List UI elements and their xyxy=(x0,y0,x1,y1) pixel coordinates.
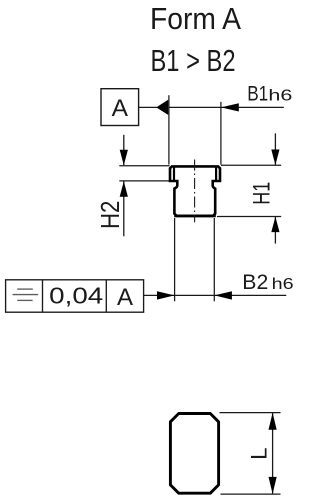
B1 left extension line xyxy=(168,95,170,164)
B2 right extension line xyxy=(213,218,215,301)
H2 arrow upper xyxy=(120,150,128,166)
centerline front view xyxy=(194,160,196,223)
H1 upper extension line xyxy=(221,164,281,166)
B2 arrow right xyxy=(214,291,232,299)
L dimension line xyxy=(272,413,274,495)
H2 dimension line lower xyxy=(123,181,125,236)
part outline front view xyxy=(170,166,220,216)
L arrow bottom xyxy=(269,477,277,494)
B1 arrow xyxy=(221,103,239,111)
svg-text:B1 > B2: B1 > B2 xyxy=(151,44,236,78)
part bottom line xyxy=(174,215,216,218)
svg-text:h6: h6 xyxy=(272,276,294,293)
tolerance frame divider 2 xyxy=(105,280,107,312)
datum box A xyxy=(101,89,139,126)
flange chamfer line right xyxy=(215,167,217,180)
H1 dimension line upper xyxy=(274,133,276,164)
B2 left extension line xyxy=(174,218,176,301)
H2 arrow lower xyxy=(120,181,128,197)
svg-text:Form A: Form A xyxy=(150,1,241,36)
flange chamfer line left xyxy=(173,167,175,180)
B1 dimension line xyxy=(169,106,284,108)
H1 arrow upper xyxy=(271,150,279,166)
svg-text:A: A xyxy=(117,284,133,311)
parallel symbol line top xyxy=(17,288,33,290)
parallel symbol line middle xyxy=(13,294,39,296)
tolerance frame box xyxy=(6,280,144,312)
svg-text:H2: H2 xyxy=(97,201,125,230)
L arrow top xyxy=(269,413,277,430)
H2 lower extension line xyxy=(119,180,174,182)
svg-text:L: L xyxy=(246,447,271,459)
L top extension line xyxy=(220,412,281,414)
tolerance frame divider 1 xyxy=(42,280,44,312)
parallel symbol line bottom xyxy=(17,299,32,301)
H2 dimension line upper xyxy=(123,135,125,165)
L bottom extension line xyxy=(221,493,281,495)
H2 upper extension line xyxy=(119,165,169,167)
svg-text:0,04: 0,04 xyxy=(49,283,103,309)
svg-text:B1: B1 xyxy=(247,83,268,106)
H1 lower extension line xyxy=(217,216,281,218)
datum leader wire xyxy=(139,106,157,108)
svg-text:H1: H1 xyxy=(248,182,275,205)
B2 arrow left xyxy=(157,291,175,299)
svg-text:h6: h6 xyxy=(268,88,292,105)
B2 dimension line xyxy=(144,294,287,296)
datum triangle xyxy=(156,100,168,115)
H1 arrow lower xyxy=(271,217,279,233)
bottom view outline xyxy=(170,414,218,494)
B1 right extension line xyxy=(220,102,222,165)
svg-text:A: A xyxy=(112,95,129,122)
H1 dimension line lower xyxy=(274,217,276,244)
svg-text:B2: B2 xyxy=(242,271,268,294)
